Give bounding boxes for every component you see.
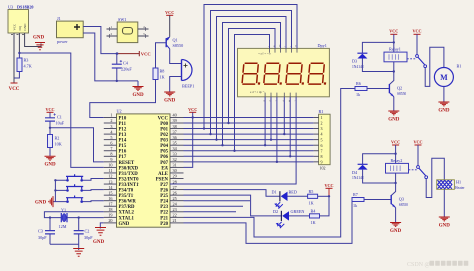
- svg-text:1K: 1K: [311, 220, 316, 225]
- svg-text:P34/T0: P34/T0: [119, 189, 134, 194]
- wire U2 pin 25 stub: [170, 200, 184, 202]
- power VCC (relay1 coil): [389, 29, 398, 35]
- wire R4 to VCC node: [320, 196, 330, 216]
- wire display segment bus 4: [223, 23, 281, 146]
- svg-text:R2: R2: [55, 136, 60, 141]
- wire D2 to R4: [289, 215, 310, 217]
- wire display bottom pin 1: [264, 97, 266, 145]
- svg-text:Q1: Q1: [173, 38, 178, 43]
- svg-text:Relay1: Relay1: [389, 47, 401, 52]
- svg-text:P02: P02: [160, 133, 168, 138]
- svg-text:13: 13: [108, 179, 112, 184]
- wire U2 pin 34 stub: [170, 150, 184, 152]
- svg-text:15: 15: [108, 190, 112, 195]
- svg-text:P05: P05: [160, 150, 168, 155]
- wire U2 pin 6 stub: [104, 144, 117, 146]
- wire U2 pin 40 stub: [170, 116, 184, 118]
- svg-text:35: 35: [173, 140, 177, 145]
- heater H1: [437, 180, 466, 190]
- svg-text:P20: P20: [160, 222, 168, 227]
- svg-text:30pF: 30pF: [38, 235, 47, 240]
- junction DQ/R3: [18, 52, 20, 54]
- power VCC (relay1 contact): [412, 29, 421, 35]
- svg-text:P36/WR: P36/WR: [119, 200, 137, 205]
- svg-text:P11: P11: [119, 122, 127, 127]
- svg-text:9: 9: [321, 159, 323, 164]
- wire Q1 collector to beeper: [170, 49, 182, 64]
- svg-text:GND: GND: [164, 98, 176, 103]
- junction coil2 top / D4: [394, 153, 396, 155]
- svg-text:32: 32: [173, 157, 177, 162]
- LED D2 GREEN: [273, 209, 304, 228]
- wire contact2 to heater: [426, 158, 444, 197]
- ground (U3): [33, 36, 45, 50]
- junction bus 5 on P0 row: [227, 122, 229, 124]
- wire U3 GND pin: [25, 33, 41, 47]
- wire U2 pin 4 stub: [104, 133, 117, 135]
- svg-text:C3: C3: [38, 229, 43, 234]
- relay1 contact: [407, 55, 427, 68]
- svg-text:D3: D3: [352, 59, 357, 64]
- svg-text:P22: P22: [160, 211, 168, 216]
- svg-text:16: 16: [108, 196, 112, 201]
- svg-text:Relay2: Relay2: [391, 158, 403, 163]
- svg-text:D1: D1: [272, 189, 277, 194]
- svg-text:1K: 1K: [160, 75, 165, 80]
- wire Q1 base to R8: [156, 43, 167, 68]
- wire U2 pin 37 stub: [170, 133, 184, 135]
- ground (C4 / J1): [132, 81, 144, 98]
- capacitor C2 30pF: [74, 218, 94, 245]
- svg-text:22: 22: [173, 213, 177, 218]
- svg-text:P26: P26: [160, 189, 168, 194]
- ground (Q3): [390, 223, 402, 234]
- wire relay2 coil to Q3 collector: [391, 173, 395, 195]
- svg-text:GREEN: GREEN: [291, 209, 305, 214]
- svg-text:37: 37: [173, 129, 177, 134]
- wire U2 pin 2 stub: [104, 122, 117, 124]
- wire VCC to contact2 pole: [417, 145, 419, 166]
- wire MCU P20 to R7 (heater drive): [184, 200, 353, 244]
- resistor R5 1K: [308, 189, 318, 206]
- pushbutton S3: [55, 196, 103, 203]
- wire R5 to VCC node: [318, 195, 329, 197]
- wire button common rail: [53, 180, 55, 201]
- resistor R2 10K: [48, 128, 62, 157]
- svg-text:P15: P15: [119, 144, 127, 149]
- buzzer BEEP1: [182, 60, 195, 89]
- svg-text:18: 18: [108, 207, 112, 212]
- svg-text:U2: U2: [117, 109, 122, 114]
- diode D4 1N4148: [352, 164, 368, 180]
- transistor Q1 S8550: [166, 37, 183, 49]
- svg-text:8: 8: [110, 152, 112, 157]
- svg-text:VCC: VCC: [412, 29, 421, 34]
- wire D1 to R5: [288, 195, 308, 197]
- wire D4 bottom branch: [363, 170, 396, 183]
- wire display bottom pin 2: [270, 97, 272, 140]
- svg-text:33: 33: [173, 152, 177, 157]
- junction bus 2 on P0 row: [209, 133, 211, 135]
- svg-text:Q2: Q2: [397, 86, 402, 91]
- wire MCU P26 to LED D1: [184, 190, 280, 197]
- wire relay1 coil to Q2 collector: [389, 62, 393, 85]
- junction display bottom pin 4: [283, 133, 285, 135]
- wire U2 pin 3 stub: [104, 128, 117, 130]
- wire beeper to ground: [170, 77, 182, 93]
- svg-text:28: 28: [173, 179, 177, 184]
- resistor R8 1K: [153, 68, 165, 80]
- junction C4 bottom: [116, 80, 118, 82]
- wire contact to motor: [425, 47, 444, 86]
- svg-text:SW1: SW1: [118, 17, 126, 22]
- wire P02 bus row: [184, 133, 314, 135]
- capacitor C3 30pF: [38, 218, 55, 245]
- svg-text:VCC: VCC: [9, 87, 20, 92]
- svg-text:Q3: Q3: [399, 197, 404, 202]
- svg-text:P04: P04: [160, 144, 168, 149]
- pushbutton S2: [55, 184, 103, 191]
- wire D3 top branch: [362, 42, 393, 53]
- svg-text:U3: U3: [8, 4, 13, 9]
- svg-text:39: 39: [173, 118, 177, 123]
- svg-text:P32/INT0: P32/INT0: [119, 177, 140, 182]
- wire U2 pin 39 stub: [170, 122, 184, 124]
- wire Q3 emitter to ground: [395, 208, 397, 223]
- junction display bottom pin 3: [276, 161, 278, 163]
- svg-text:11: 11: [108, 168, 112, 173]
- wire P06 bus row: [184, 155, 314, 157]
- svg-text:VCC: VCC: [391, 139, 400, 144]
- svg-text:12M: 12M: [59, 224, 67, 229]
- wire U2 pin 16 stub: [104, 200, 117, 202]
- svg-text:XTAL2: XTAL2: [119, 211, 135, 216]
- svg-text:Dpy1: Dpy1: [318, 43, 327, 48]
- svg-text:P37/RD: P37/RD: [119, 205, 136, 210]
- svg-text:P24: P24: [160, 200, 168, 205]
- wire U2 pin 13 stub: [104, 183, 117, 185]
- diode D3 1N4148: [352, 53, 367, 69]
- crystal Y1 12M: [59, 208, 68, 230]
- wire U2 pin 9 stub: [104, 161, 117, 163]
- sensor U3 DS18B20: [8, 4, 34, 34]
- svg-text:RESET: RESET: [119, 161, 136, 166]
- digit 4: [308, 63, 328, 84]
- transistor Q3 S8550: [391, 195, 408, 208]
- svg-text:Heater: Heater: [455, 186, 465, 190]
- svg-text:GND: GND: [388, 117, 400, 122]
- ground (R2): [44, 156, 56, 167]
- svg-text:B1: B1: [457, 64, 462, 69]
- wire U2 pin 35 stub: [170, 144, 184, 146]
- wire U2 pin 26 stub: [170, 194, 184, 196]
- digit 2: [264, 63, 284, 84]
- motor B1: [434, 64, 461, 87]
- wire U2 pin 38 stub: [170, 128, 184, 130]
- svg-text:10: 10: [108, 163, 112, 168]
- junction VCC row: [192, 116, 194, 118]
- junction crystal right / C2: [78, 216, 80, 218]
- wire VCC to contact pole: [416, 34, 418, 54]
- svg-text:38: 38: [173, 124, 177, 129]
- junction crystal left / C3: [49, 216, 51, 218]
- svg-text:R5: R5: [309, 189, 314, 194]
- wire P03 bus row: [184, 139, 314, 141]
- wire D4 top branch: [363, 154, 396, 165]
- connector J1 power: [57, 16, 84, 44]
- svg-text:P14: P14: [119, 139, 127, 144]
- wire display segment bus 5: [229, 29, 276, 124]
- svg-text:e d ¬ c dp ¬: e d ¬ c dp ¬: [250, 90, 265, 94]
- svg-text:VCC: VCC: [413, 139, 422, 144]
- power VCC (relay2 contact): [413, 139, 422, 145]
- svg-text:GND: GND: [33, 36, 45, 41]
- wire R6 to Q2 base: [367, 88, 389, 90]
- svg-text:P10: P10: [119, 116, 127, 121]
- capacitor C4 220uF: [112, 54, 133, 81]
- wire R7 to Q3 base: [364, 199, 391, 201]
- svg-text:XTAL1: XTAL1: [119, 216, 135, 221]
- net label VCC (maroon wire): [117, 51, 151, 57]
- svg-text:P07: P07: [160, 161, 168, 166]
- wire reset node to MCU pin9: [50, 128, 104, 162]
- display Dpy1 (4-digit 7-segment): [238, 43, 330, 97]
- svg-text:power: power: [57, 39, 68, 44]
- power VCC (MCU pin40): [188, 107, 197, 113]
- pushbutton S1: [55, 174, 103, 181]
- svg-text:CSDN @: CSDN @: [407, 262, 431, 268]
- svg-text:GND: GND: [44, 163, 56, 168]
- wire U3 DQ pin down to node: [18, 33, 20, 53]
- wire display segment bus 2: [211, 11, 292, 135]
- svg-text:220uF: 220uF: [121, 67, 132, 72]
- svg-text:DQ: DQ: [18, 25, 22, 30]
- wire U2 pin 5 stub: [104, 139, 117, 141]
- wire display bottom pin 5: [289, 97, 291, 157]
- wire MCU P25 to LED D2: [184, 195, 282, 216]
- svg-text:4.7K: 4.7K: [24, 64, 32, 69]
- wire U2 pin 21 stub: [170, 222, 184, 224]
- display pin marks: [264, 45, 298, 103]
- svg-text:21: 21: [173, 218, 177, 223]
- wire U2 pin 30 stub: [170, 172, 184, 174]
- svg-text:BEEP1: BEEP1: [182, 84, 194, 89]
- wire P04 bus row: [184, 144, 314, 146]
- junction SW rail / VCC wire: [116, 52, 118, 54]
- watermark CSDN: [407, 261, 468, 268]
- junction bus 6 on P0 row: [233, 150, 235, 152]
- svg-text:ALE: ALE: [158, 172, 168, 177]
- svg-text:27: 27: [173, 185, 177, 190]
- relay Relay2: [386, 158, 409, 173]
- wire VCC to relay1 coil: [393, 34, 395, 52]
- power VCC (reset chain): [45, 107, 54, 113]
- junction coil2 bottom / D4: [394, 182, 396, 184]
- svg-text:3: 3: [110, 124, 112, 129]
- wire heater to ground: [443, 189, 445, 217]
- svg-text:P13: P13: [119, 133, 127, 138]
- junction reset node: [49, 127, 51, 129]
- svg-text:GND: GND: [93, 240, 105, 245]
- wire U2 pin 31 stub: [170, 166, 184, 168]
- svg-text:S8550: S8550: [173, 43, 184, 48]
- svg-text:P21: P21: [160, 216, 168, 221]
- wire J1 plus to SW1 rail: [83, 27, 117, 54]
- svg-text:1N4148: 1N4148: [352, 176, 364, 180]
- svg-text:P12: P12: [119, 127, 127, 132]
- junction coil bottom / D3: [393, 70, 395, 72]
- svg-text:5: 5: [321, 137, 323, 142]
- wire display digit pin to MCU P27: [170, 97, 296, 184]
- wire U3 VCC pin down: [13, 33, 15, 83]
- wire Q2 emitter to ground: [393, 97, 395, 111]
- transistor Q2 S8550: [389, 84, 406, 97]
- svg-text:40: 40: [173, 113, 177, 118]
- MCU U2: [117, 109, 171, 228]
- wire P05 bus row: [184, 150, 314, 152]
- wire U2 pin 1 stub: [104, 116, 117, 118]
- junction bus 1 on P0 row: [203, 127, 205, 129]
- junction C4 top: [116, 52, 118, 54]
- wire U2 pin 33 stub: [170, 155, 184, 157]
- svg-text:VCC: VCC: [158, 116, 169, 121]
- svg-text:M: M: [440, 73, 448, 82]
- wire U2 pin 24 stub: [170, 205, 184, 207]
- LED D1 RED: [272, 189, 297, 208]
- power VCC (LED pullups): [324, 183, 333, 197]
- wire U2 pin 18 stub: [104, 211, 117, 213]
- svg-text:S8550: S8550: [399, 203, 408, 207]
- svg-text:P30/RXD: P30/RXD: [119, 166, 139, 171]
- svg-text:R6: R6: [356, 81, 361, 86]
- junction bus 3 on P0 row: [215, 138, 217, 140]
- wire U2 pin 19 stub: [104, 216, 117, 218]
- wire VCC to relay2 coil: [395, 145, 397, 163]
- svg-text:VCC: VCC: [45, 107, 54, 112]
- wire P00 bus row: [184, 122, 314, 124]
- svg-text:30pF: 30pF: [84, 235, 93, 240]
- wire DQ net to MCU P30: [19, 53, 103, 167]
- svg-text:EA: EA: [161, 166, 168, 171]
- wire XTAL1 to crystal: [67, 217, 104, 219]
- resistor R6 1k: [355, 81, 367, 97]
- svg-text:S8550: S8550: [397, 92, 406, 96]
- wire U2 pin 28 stub: [170, 183, 184, 185]
- wire MCU pin20 to ground: [100, 223, 104, 229]
- svg-text:H1: H1: [456, 180, 461, 185]
- junction rail/S1: [54, 179, 56, 181]
- resistor R7 1k: [352, 192, 364, 208]
- svg-text:P31/TXD: P31/TXD: [119, 172, 139, 177]
- svg-text:GND: GND: [23, 23, 27, 31]
- svg-text:4: 4: [321, 132, 323, 137]
- svg-text:102: 102: [320, 166, 326, 171]
- svg-text:2: 2: [321, 121, 323, 126]
- wire U2 pin 32 stub: [170, 161, 184, 163]
- svg-text:6: 6: [110, 140, 112, 145]
- wire R8 to MCU P10: [90, 80, 156, 118]
- svg-text:f: f: [279, 45, 280, 48]
- svg-text:PSEN: PSEN: [156, 177, 169, 182]
- wire U2 pin 29 stub: [170, 178, 184, 180]
- svg-text:3: 3: [321, 126, 323, 131]
- svg-text:P00: P00: [160, 122, 168, 127]
- wire U2 pin 36 stub: [170, 139, 184, 141]
- wire display segment bus 1: [204, 5, 297, 129]
- junction display bottom pin 5: [289, 155, 291, 157]
- svg-text:C2: C2: [85, 229, 90, 234]
- svg-text:P16: P16: [119, 150, 127, 155]
- svg-text:VCC: VCC: [13, 24, 17, 31]
- svg-text:P27: P27: [160, 183, 168, 188]
- svg-text:P23: P23: [160, 205, 168, 210]
- junction display bottom pin 2: [270, 138, 272, 140]
- wire VCC to Q1 emitter: [169, 16, 171, 37]
- ground (Q2): [388, 111, 400, 122]
- wire U2 pin 14 stub: [104, 189, 117, 191]
- svg-text:29: 29: [173, 174, 177, 179]
- svg-text:GND: GND: [438, 108, 450, 113]
- digit 1: [242, 63, 262, 84]
- wire D3 bottom branch: [362, 59, 393, 72]
- svg-text:1: 1: [321, 115, 323, 120]
- ground (BEEP1): [164, 92, 176, 103]
- svg-text:8: 8: [321, 154, 323, 159]
- svg-text:17: 17: [108, 201, 112, 206]
- ground (heater): [439, 217, 451, 228]
- svg-text:Y1: Y1: [61, 208, 66, 213]
- svg-text:GND: GND: [439, 223, 451, 228]
- svg-text:VCC: VCC: [141, 52, 151, 57]
- svg-text:25: 25: [173, 196, 177, 201]
- svg-text:P35/T1: P35/T1: [119, 194, 134, 199]
- svg-text:10K: 10K: [55, 142, 62, 147]
- ground (MCU GND pin): [93, 228, 106, 246]
- junction coil top / D3: [393, 41, 395, 43]
- junction rail/S2: [54, 189, 56, 191]
- svg-text:P17: P17: [119, 155, 127, 160]
- svg-text:P25: P25: [160, 194, 168, 199]
- wire U2 pin 12 stub: [104, 178, 117, 180]
- svg-text:R1: R1: [319, 109, 324, 114]
- wire U2 pin 8 stub: [104, 155, 117, 157]
- svg-text:J1: J1: [57, 16, 61, 21]
- wire U2 pin 27 stub: [170, 189, 184, 191]
- power VCC (Q1 emitter): [165, 10, 174, 16]
- svg-text:GND: GND: [119, 222, 130, 227]
- junction R5/VCC: [328, 195, 330, 197]
- wire U2 pin 20 stub: [104, 222, 117, 224]
- svg-text:6: 6: [321, 143, 323, 148]
- wire U2 pin 10 stub: [104, 166, 117, 168]
- wire U2 pin 11 stub: [104, 172, 117, 174]
- wire P24 extension: [184, 200, 251, 202]
- svg-text:9: 9: [110, 157, 112, 162]
- wire J1 minus to ground rail: [83, 33, 138, 81]
- svg-text:7: 7: [110, 146, 112, 151]
- wire display segment bus 3: [217, 17, 287, 140]
- svg-text:VCC: VCC: [188, 107, 197, 112]
- relay2 contact: [409, 166, 428, 179]
- svg-text:R3: R3: [24, 58, 29, 63]
- svg-text:P33/INT1: P33/INT1: [119, 183, 140, 188]
- svg-text:C1: C1: [57, 115, 62, 120]
- svg-text:GND: GND: [132, 93, 144, 98]
- wire MCU P21 to R6 (fan drive): [184, 89, 356, 238]
- ground (buttons, sideways): [35, 196, 53, 207]
- svg-text:D2: D2: [273, 209, 278, 214]
- resistor R4 1K: [310, 209, 320, 226]
